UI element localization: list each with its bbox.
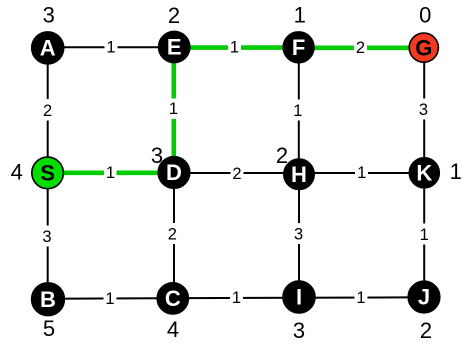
svg-text:K: K bbox=[416, 161, 432, 186]
svg-text:3: 3 bbox=[293, 318, 305, 343]
svg-text:J: J bbox=[418, 285, 430, 310]
svg-text:4: 4 bbox=[11, 159, 23, 184]
svg-text:1: 1 bbox=[450, 159, 462, 184]
svg-text:3: 3 bbox=[43, 2, 55, 27]
svg-text:S: S bbox=[40, 161, 55, 186]
svg-text:2: 2 bbox=[168, 225, 177, 243]
svg-text:1: 1 bbox=[357, 164, 366, 182]
svg-text:1: 1 bbox=[106, 164, 115, 182]
svg-text:2: 2 bbox=[232, 165, 241, 183]
svg-text:A: A bbox=[40, 36, 56, 61]
svg-text:E: E bbox=[167, 35, 182, 60]
svg-text:1: 1 bbox=[420, 226, 429, 244]
svg-text:1: 1 bbox=[356, 289, 365, 307]
svg-text:4: 4 bbox=[167, 317, 179, 342]
svg-text:3: 3 bbox=[419, 101, 428, 119]
svg-text:1: 1 bbox=[232, 289, 241, 307]
svg-text:5: 5 bbox=[43, 316, 55, 341]
svg-text:2: 2 bbox=[276, 143, 288, 168]
svg-text:B: B bbox=[40, 287, 56, 312]
svg-text:1: 1 bbox=[230, 38, 239, 56]
svg-text:G: G bbox=[415, 35, 432, 60]
svg-text:1: 1 bbox=[293, 102, 302, 120]
svg-text:1: 1 bbox=[105, 290, 114, 308]
svg-text:C: C bbox=[165, 286, 181, 311]
svg-text:2: 2 bbox=[356, 39, 365, 57]
svg-text:2: 2 bbox=[420, 318, 432, 343]
svg-text:F: F bbox=[292, 35, 305, 60]
svg-text:1: 1 bbox=[106, 38, 115, 56]
svg-text:3: 3 bbox=[294, 225, 303, 243]
svg-text:2: 2 bbox=[168, 3, 180, 28]
svg-text:I: I bbox=[296, 285, 302, 310]
svg-text:H: H bbox=[291, 162, 307, 187]
svg-text:3: 3 bbox=[42, 228, 51, 246]
svg-text:0: 0 bbox=[419, 3, 431, 28]
svg-text:1: 1 bbox=[294, 3, 306, 28]
svg-text:3: 3 bbox=[151, 143, 163, 168]
svg-text:1: 1 bbox=[169, 100, 178, 118]
svg-text:D: D bbox=[166, 160, 182, 185]
svg-text:2: 2 bbox=[43, 102, 52, 120]
